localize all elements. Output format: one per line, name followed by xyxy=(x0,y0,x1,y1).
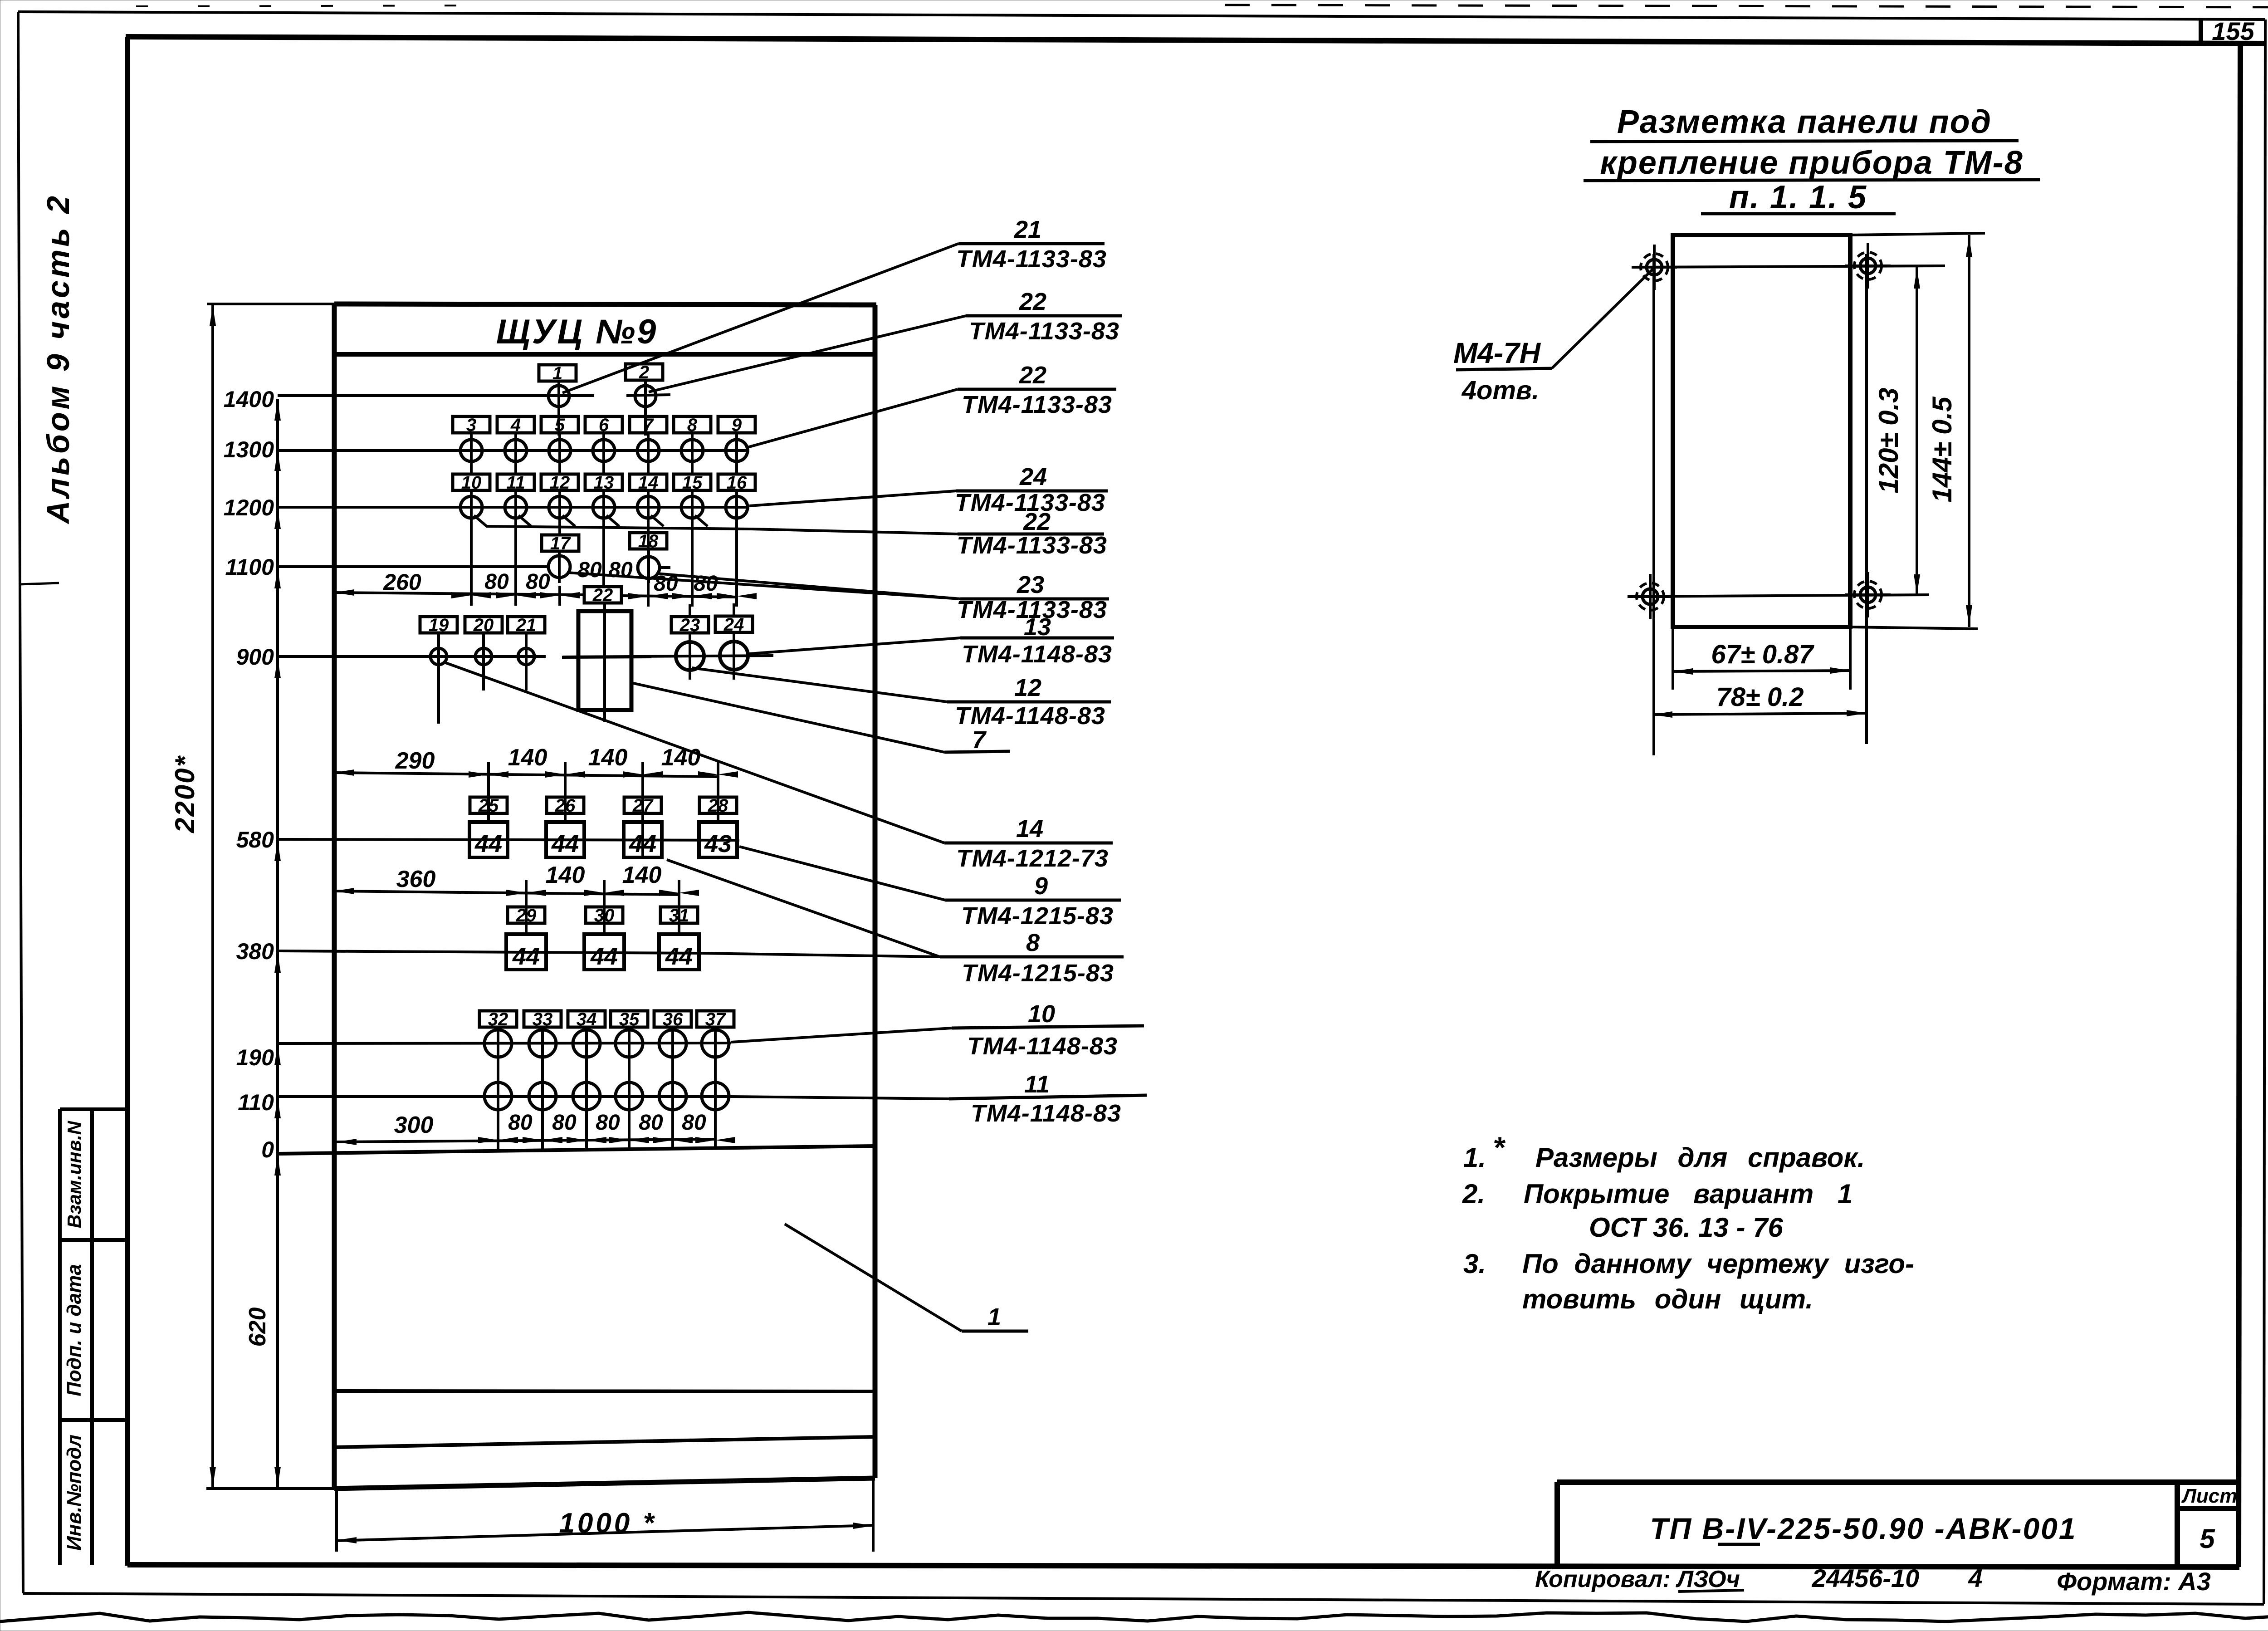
row line 1200 xyxy=(278,506,749,509)
svg-text:1300: 1300 xyxy=(224,437,274,462)
svg-text:товить один щит.: товить один щит. xyxy=(1522,1284,1813,1314)
row line 1100 xyxy=(278,565,547,568)
row line 900 xyxy=(278,655,546,658)
svg-text:12: 12 xyxy=(1014,674,1041,701)
leader label 14 ТМ4-1212-73 (from circle 19) xyxy=(445,662,944,843)
item box 37 xyxy=(697,1011,734,1027)
svg-text:8: 8 xyxy=(687,415,698,435)
svg-text:Инв.№подл: Инв.№подл xyxy=(63,1435,85,1551)
detail hole centerline left vertical xyxy=(1652,254,1655,755)
circle 5 xyxy=(549,440,571,461)
svg-text:7: 7 xyxy=(972,726,987,754)
dimension chain 260-80-80-80-80 xyxy=(334,593,583,595)
dimension tick 1100 xyxy=(274,568,281,588)
svg-text:34: 34 xyxy=(577,1009,597,1029)
svg-text:22: 22 xyxy=(1019,288,1046,315)
svg-text:120± 0.3: 120± 0.3 xyxy=(1873,387,1904,493)
leader label 13 ТМ4-1148-83 (from circle 24) xyxy=(749,638,960,654)
dimension chain 290-140-140-140 xyxy=(334,773,718,777)
leader label 8 ТМ4-1215-83 (from square 44 row and 380 line) xyxy=(667,860,940,957)
svg-text:8: 8 xyxy=(1026,929,1040,956)
svg-text:2.: 2. xyxy=(1462,1179,1485,1209)
svg-text:29: 29 xyxy=(516,906,537,926)
circle 18 xyxy=(638,557,660,578)
svg-text:ОСТ 36. 13 - 76: ОСТ 36. 13 - 76 xyxy=(1589,1212,1784,1243)
square unit 44 under box 27 xyxy=(624,822,662,857)
square unit 44 under box 25 xyxy=(469,822,508,857)
svg-text:3.: 3. xyxy=(1463,1249,1486,1279)
svg-text:ТМ4-1215-83: ТМ4-1215-83 xyxy=(961,902,1114,930)
circle 4 xyxy=(505,440,527,461)
svg-text:26: 26 xyxy=(555,796,576,816)
item box 24 xyxy=(715,616,753,632)
svg-text:10: 10 xyxy=(461,473,482,493)
svg-text:360: 360 xyxy=(396,866,436,892)
leader label 11 ТМ4-1148-83 (from circle 37 lower) xyxy=(731,1097,949,1099)
circle 17 xyxy=(548,556,570,578)
circle 10 xyxy=(460,496,482,518)
svg-text:32: 32 xyxy=(488,1009,508,1029)
item box 34 xyxy=(568,1011,605,1027)
dimension bottom tick at panel base xyxy=(206,1487,334,1490)
svg-text:4: 4 xyxy=(510,415,521,435)
dimension tick 190 xyxy=(274,1045,281,1065)
circle 37 upper xyxy=(702,1030,729,1057)
svg-text:1: 1 xyxy=(552,363,562,383)
circle 14 xyxy=(637,496,659,518)
svg-text:43: 43 xyxy=(704,830,732,857)
detail hole centerline top horizontal xyxy=(1632,266,1945,267)
item box 1 xyxy=(539,365,576,381)
circle 23 xyxy=(676,642,704,670)
svg-text:140: 140 xyxy=(508,744,547,771)
circle 15 xyxy=(681,496,703,518)
circle 3 xyxy=(460,440,482,461)
item box 5 xyxy=(541,416,578,433)
svg-text:1.: 1. xyxy=(1463,1142,1486,1173)
title block cell Лист xyxy=(2177,1506,2239,1511)
item box 3 xyxy=(453,416,490,433)
svg-text:16: 16 xyxy=(727,473,747,493)
svg-text:24: 24 xyxy=(1019,463,1047,490)
circle 33 lower xyxy=(529,1082,556,1110)
svg-text:5: 5 xyxy=(2200,1523,2215,1554)
svg-text:п. 1. 1. 5: п. 1. 1. 5 xyxy=(1729,179,1867,216)
svg-text:М4-7Н: М4-7Н xyxy=(1453,337,1541,369)
title block frame xyxy=(1557,1479,2239,1485)
leader label 22 ТМ4-1133-83 (from circle 2) xyxy=(649,316,966,392)
page number box 155 xyxy=(2199,20,2203,43)
circle 11 xyxy=(505,496,527,518)
scan artifact: top edge dashes xyxy=(136,5,499,6)
svg-text:900: 900 xyxy=(236,644,274,670)
svg-text:ЩУЦ №9: ЩУЦ №9 xyxy=(496,313,658,351)
column lines below circles 10-16 xyxy=(470,490,473,596)
svg-text:30: 30 xyxy=(594,906,615,926)
svg-text:35: 35 xyxy=(619,1009,640,1029)
svg-text:44: 44 xyxy=(629,830,656,857)
row line 190 xyxy=(278,1043,731,1043)
svg-text:24456-10: 24456-10 xyxy=(1812,1564,1920,1592)
detail hole centerline right vertical xyxy=(1865,254,1868,744)
leader label 12 ТМ4-1148-83 (from circle 23) xyxy=(692,668,947,702)
svg-text:44: 44 xyxy=(512,943,540,970)
svg-text:44: 44 xyxy=(551,830,579,857)
svg-text:78± 0.2: 78± 0.2 xyxy=(1716,682,1804,712)
leader label 9 ТМ4-1215-83 (from square 43) xyxy=(739,847,945,900)
circle 37 lower xyxy=(702,1082,729,1110)
circle 36 lower xyxy=(659,1082,686,1110)
svg-text:Лист: Лист xyxy=(2181,1485,2238,1507)
column line 34 xyxy=(585,1027,588,1149)
circle 24 xyxy=(720,642,748,670)
svg-text:580: 580 xyxy=(236,827,274,852)
column line 33 xyxy=(541,1027,544,1149)
outer border xyxy=(18,12,2265,20)
svg-text:Разметка панели под: Разметка панели под xyxy=(1617,104,1992,140)
row line 380 xyxy=(278,951,699,953)
svg-text:80: 80 xyxy=(682,1111,706,1135)
svg-text:Размеры для справок.: Размеры для справок. xyxy=(1535,1142,1865,1173)
svg-text:3: 3 xyxy=(466,415,476,435)
dimension tick 1300 xyxy=(274,451,281,471)
item box 32 xyxy=(479,1011,517,1027)
item box 18 xyxy=(630,533,667,549)
svg-text:31: 31 xyxy=(669,906,689,926)
svg-text:0: 0 xyxy=(261,1137,274,1162)
square unit 44 under box 30 xyxy=(584,934,624,970)
mounting hole top-right xyxy=(1860,258,1876,274)
circle 8 xyxy=(681,440,703,461)
svg-text:4: 4 xyxy=(1968,1564,1982,1592)
item box 27 xyxy=(624,797,661,813)
dimension 1000* xyxy=(335,1489,338,1552)
svg-text:260: 260 xyxy=(383,569,421,595)
item box 16 xyxy=(718,474,755,490)
column line 37 xyxy=(714,1027,717,1149)
svg-text:4отв.: 4отв. xyxy=(1461,376,1539,405)
svg-text:Подп. и дата: Подп. и дата xyxy=(63,1264,85,1396)
item box 10 xyxy=(453,474,490,490)
svg-text:19: 19 xyxy=(429,615,449,635)
svg-text:27: 27 xyxy=(632,796,654,816)
circle 2 xyxy=(635,386,656,407)
svg-text:5: 5 xyxy=(555,415,565,435)
svg-text:20: 20 xyxy=(473,615,494,635)
item box 35 xyxy=(611,1011,648,1027)
svg-text:24: 24 xyxy=(723,615,744,635)
svg-text:ТМ4-1133-83: ТМ4-1133-83 xyxy=(957,532,1107,559)
svg-text:22: 22 xyxy=(1023,508,1051,535)
panel lower horizontal line 2 xyxy=(334,1437,875,1447)
square unit 44 under box 31 xyxy=(659,934,699,970)
svg-text:140: 140 xyxy=(546,862,585,888)
circle 12 xyxy=(549,496,571,518)
svg-text:ТМ4-1133-83: ТМ4-1133-83 xyxy=(969,318,1119,345)
svg-text:13: 13 xyxy=(594,473,614,493)
dimension tick 110 xyxy=(274,1098,281,1118)
item box 36 xyxy=(654,1011,691,1027)
leader label 7 (from TM-8 rectangle) xyxy=(631,683,944,752)
dimension chain 360-140-140 xyxy=(334,891,680,895)
item box 33 xyxy=(524,1011,561,1027)
dimension 78±0.2 xyxy=(1652,713,1867,715)
mounting hole top-left xyxy=(1647,260,1662,275)
svg-text:2200*: 2200* xyxy=(170,755,200,833)
svg-text:80: 80 xyxy=(596,1111,620,1135)
svg-text:*: * xyxy=(1493,1131,1506,1164)
svg-text:ТМ4-1212-73: ТМ4-1212-73 xyxy=(956,845,1109,872)
leader label 23 ТМ4-1133-83 (from circles 17,18) xyxy=(567,573,960,599)
svg-text:80: 80 xyxy=(484,570,509,594)
svg-text:ТМ4-1148-83: ТМ4-1148-83 xyxy=(967,1033,1118,1060)
detail hole centerline bottom horizontal xyxy=(1629,595,1929,597)
stamp box: Подп. и дата xyxy=(60,1238,127,1242)
circle 33 upper xyxy=(529,1030,556,1057)
column line 32 xyxy=(497,1027,499,1149)
dimension tick 1400 xyxy=(274,401,281,421)
svg-text:1100: 1100 xyxy=(225,554,274,580)
svg-text:13: 13 xyxy=(1024,613,1051,641)
svg-text:9: 9 xyxy=(732,415,742,435)
square unit 43 under box 28 xyxy=(699,822,737,857)
item box 26 xyxy=(547,797,584,813)
mounting hole bottom-left xyxy=(1642,589,1658,604)
dimension tick 900 xyxy=(274,658,281,678)
svg-text:190: 190 xyxy=(236,1045,274,1070)
svg-text:ТМ4-1148-83: ТМ4-1148-83 xyxy=(962,641,1112,668)
row line 1300 xyxy=(278,449,749,452)
extension lines to boxes 29-31 xyxy=(525,905,528,935)
svg-text:44: 44 xyxy=(665,943,693,970)
panel header line xyxy=(334,352,875,357)
svg-text:23: 23 xyxy=(679,615,700,635)
item box 19 xyxy=(420,617,457,633)
svg-text:33: 33 xyxy=(533,1009,553,1029)
svg-text:10: 10 xyxy=(1028,1000,1055,1028)
svg-text:Копировал: ЛЗОч: Копировал: ЛЗОч xyxy=(1535,1566,1740,1592)
leader label 1 (panel) xyxy=(785,1224,962,1331)
row line 110 xyxy=(278,1095,731,1098)
item box 30 xyxy=(586,907,623,923)
column line 36 xyxy=(671,1027,674,1149)
svg-text:80: 80 xyxy=(608,558,633,582)
svg-text:380: 380 xyxy=(236,939,274,964)
svg-text:ТМ4-1148-83: ТМ4-1148-83 xyxy=(955,702,1105,730)
svg-text:18: 18 xyxy=(638,531,659,551)
stamp box: Инв.№подл xyxy=(60,1418,127,1422)
item box 17 xyxy=(542,535,579,551)
dimension 67±0.87 xyxy=(1672,627,1674,690)
circle 35 upper xyxy=(616,1030,643,1057)
svg-text:110: 110 xyxy=(238,1090,274,1115)
item box 13 xyxy=(585,474,622,490)
panel ЩУЦ №9 outline xyxy=(334,304,876,305)
extension stubs above boxes 23-24 xyxy=(689,604,691,617)
vertical dimension line with ticks xyxy=(276,399,279,1489)
circle 32 upper xyxy=(484,1030,512,1057)
svg-text:Альбом 9 часть 2: Альбом 9 часть 2 xyxy=(40,193,76,524)
circle 7 xyxy=(637,440,659,461)
svg-text:144± 0.5: 144± 0.5 xyxy=(1927,396,1957,503)
svg-text:28: 28 xyxy=(708,796,728,816)
item box 11 xyxy=(497,474,534,490)
circle 19 xyxy=(430,648,447,665)
svg-text:140: 140 xyxy=(622,862,662,888)
instrument TM-8 rectangle item 22 xyxy=(578,611,631,710)
dimension 144±0.5 xyxy=(1968,235,1970,627)
circle 6 xyxy=(593,440,615,461)
svg-text:6: 6 xyxy=(599,415,609,435)
svg-text:1200: 1200 xyxy=(224,495,274,520)
item box 20 xyxy=(465,617,502,633)
extension lines to boxes 25-28 xyxy=(487,786,490,823)
collector line from circles 10-16 to label xyxy=(474,515,487,526)
item box 6 xyxy=(585,416,622,433)
detail panel cutout rectangle xyxy=(1673,235,1850,627)
svg-text:37: 37 xyxy=(705,1009,726,1029)
svg-text:Покрытие вариант 1: Покрытие вариант 1 xyxy=(1524,1179,1853,1209)
circle 20 xyxy=(475,648,492,665)
item box 22 xyxy=(584,587,621,603)
svg-text:Формат: А3: Формат: А3 xyxy=(2057,1567,2211,1596)
dimension tick 380 xyxy=(274,953,281,973)
dimension chain 300-80-80-80-80-80 xyxy=(337,1139,715,1142)
panel lower horizontal line 1 xyxy=(334,1391,875,1391)
item box 9 xyxy=(718,416,755,433)
svg-text:36: 36 xyxy=(663,1009,683,1029)
inner drawing frame xyxy=(126,37,2265,44)
svg-text:ТМ4-1148-83: ТМ4-1148-83 xyxy=(971,1100,1121,1127)
dimension extension line 2200 xyxy=(207,303,334,305)
scan artifact: left margin fold mark xyxy=(19,583,59,584)
leader label 21 ТМ4-1133-83 (from circle 1) xyxy=(562,244,958,393)
circle 35 lower xyxy=(616,1082,643,1110)
dimension 120±0.3 xyxy=(1916,267,1918,596)
item box 4 xyxy=(497,416,534,433)
item box 15 xyxy=(674,474,711,490)
circle 9 xyxy=(726,440,748,461)
circle 32 lower xyxy=(484,1082,512,1110)
svg-text:По данному чертежу изго-: По данному чертежу изго- xyxy=(1522,1249,1914,1279)
circle 1 xyxy=(548,386,569,407)
circle 34 lower xyxy=(573,1082,600,1110)
svg-text:21: 21 xyxy=(516,615,537,635)
leader label 24 ТМ4-1133-83 (from row 10-16) xyxy=(749,491,956,506)
svg-text:15: 15 xyxy=(682,473,703,493)
item box 23 xyxy=(671,617,709,633)
svg-text:290: 290 xyxy=(395,748,435,774)
item box 8 xyxy=(674,416,711,433)
svg-text:9: 9 xyxy=(1034,872,1048,900)
svg-text:44: 44 xyxy=(474,830,502,857)
row line 580 xyxy=(278,839,739,840)
mounting hole bottom-right xyxy=(1860,587,1876,602)
item box 12 xyxy=(541,474,578,490)
dimension tick 0 xyxy=(274,1156,281,1175)
svg-text:80: 80 xyxy=(552,1111,577,1135)
svg-text:ТМ4-1133-83: ТМ4-1133-83 xyxy=(956,245,1107,273)
leader label 22 ТМ4-1133-83 (from circle 9) xyxy=(748,389,958,447)
svg-text:2: 2 xyxy=(639,362,649,382)
svg-text:11: 11 xyxy=(1024,1071,1050,1098)
svg-text:ТП В-IV-225-50.90 -АВК-001: ТП В-IV-225-50.90 -АВК-001 xyxy=(1650,1512,2077,1545)
svg-text:Взам.инв.N: Взам.инв.N xyxy=(64,1120,85,1228)
item box 31 xyxy=(660,907,698,923)
circle 34 upper xyxy=(573,1030,600,1057)
scan artifact: bottom edge zigzag xyxy=(0,1612,2268,1621)
svg-text:11: 11 xyxy=(506,473,525,493)
circle 36 upper xyxy=(659,1030,686,1057)
svg-text:80: 80 xyxy=(639,1111,663,1135)
leader label 10 ТМ4-1148-83 (from circle 37 upper) xyxy=(731,1028,952,1042)
item box 2 xyxy=(626,364,663,380)
svg-text:ТМ4-1133-83: ТМ4-1133-83 xyxy=(962,391,1112,418)
svg-text:80: 80 xyxy=(508,1111,533,1135)
item box 14 xyxy=(630,474,667,490)
svg-text:80: 80 xyxy=(577,558,602,582)
svg-text:155: 155 xyxy=(2212,17,2254,45)
column line 35 xyxy=(628,1027,631,1149)
svg-text:14: 14 xyxy=(638,473,659,493)
svg-text:14: 14 xyxy=(1016,815,1043,842)
circle 16 xyxy=(726,496,748,518)
circle 21 xyxy=(518,648,534,665)
stamp box: Взам.инв.N xyxy=(60,1107,127,1111)
svg-text:21: 21 xyxy=(1014,216,1041,243)
svg-text:17: 17 xyxy=(550,534,571,553)
dimension tick 580 xyxy=(274,841,281,861)
svg-text:67± 0.87: 67± 0.87 xyxy=(1711,640,1814,669)
svg-text:1000 *: 1000 * xyxy=(559,1508,656,1539)
item box 21 xyxy=(508,617,545,633)
svg-text:ТМ4-1215-83: ТМ4-1215-83 xyxy=(962,960,1114,987)
svg-text:25: 25 xyxy=(478,796,499,816)
square unit 44 under box 29 xyxy=(506,934,546,970)
square unit 44 under box 26 xyxy=(546,822,584,857)
svg-text:7: 7 xyxy=(643,415,654,435)
leader label 22 ТМ4-1133-83 (from circles 10-16 collector) xyxy=(751,529,958,534)
item box 7 xyxy=(630,416,667,433)
svg-text:300: 300 xyxy=(394,1112,434,1138)
svg-text:44: 44 xyxy=(590,943,618,970)
svg-text:22: 22 xyxy=(592,585,613,605)
svg-text:крепление прибора ТМ-8: крепление прибора ТМ-8 xyxy=(1600,145,2023,181)
svg-text:23: 23 xyxy=(1017,571,1044,598)
item box 28 xyxy=(699,797,737,813)
item box 29 xyxy=(508,907,545,923)
dimension tick 1200 xyxy=(274,509,281,529)
svg-text:12: 12 xyxy=(550,473,570,493)
row line 0 xyxy=(278,1146,875,1154)
item box 25 xyxy=(470,797,507,813)
svg-text:1400: 1400 xyxy=(224,387,274,412)
svg-text:22: 22 xyxy=(1019,362,1046,389)
svg-text:140: 140 xyxy=(588,744,628,771)
circle 13 xyxy=(593,496,615,518)
svg-text:80: 80 xyxy=(526,570,550,594)
svg-text:620: 620 xyxy=(244,1308,271,1347)
svg-text:1: 1 xyxy=(987,1303,1001,1331)
row line 1400 xyxy=(278,394,594,397)
